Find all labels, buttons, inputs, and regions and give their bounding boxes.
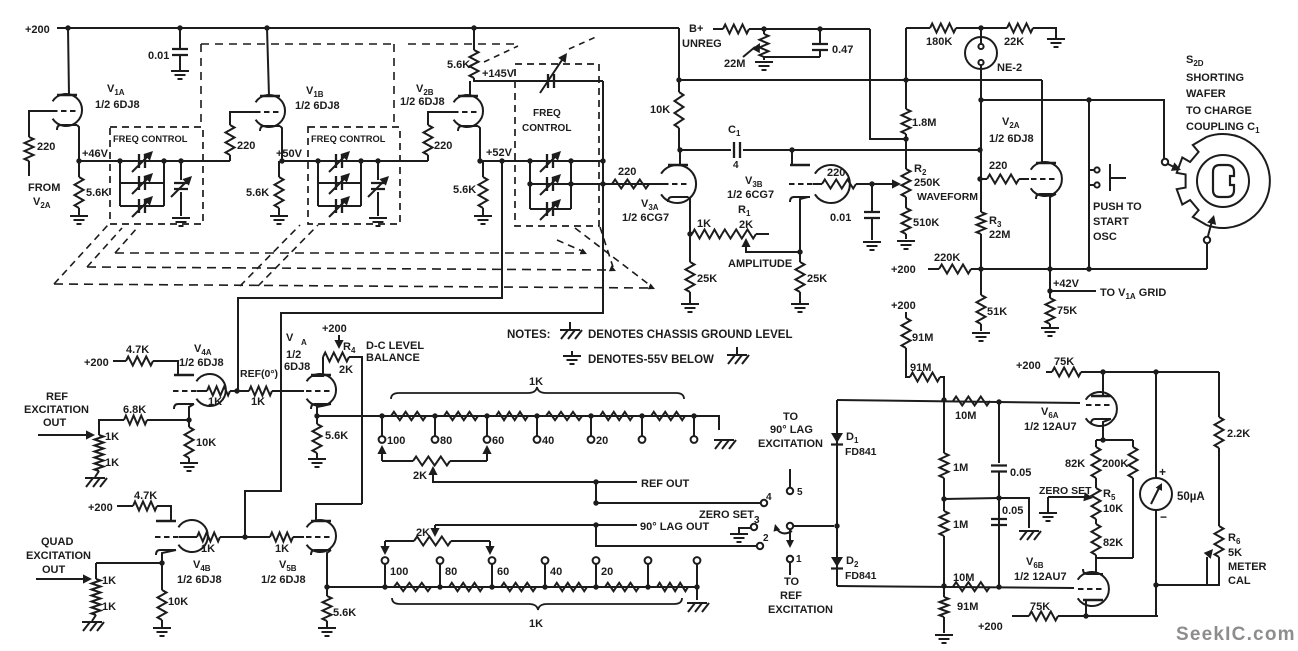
triode V3A 1/2 6CG7 (661, 165, 696, 203)
svg-text:+42V: +42V (1053, 278, 1080, 290)
svg-text:100: 100 (387, 435, 405, 447)
svg-text:FREQ CONTROL: FREQ CONTROL (113, 134, 188, 144)
ground -55V (25K V3B) (791, 304, 809, 312)
svg-text:51K: 51K (987, 306, 1007, 318)
cathode V5B (311, 550, 331, 555)
brace 1K (upper ladder) (391, 387, 684, 399)
resistor 1K (VA grid) (230, 390, 249, 392)
junction top bus / V1B plate (264, 25, 269, 30)
symbol chassis ground (notes 2) (727, 355, 749, 364)
cathode V3B (790, 197, 810, 202)
junction tap (437, 584, 442, 589)
svg-text:22M: 22M (989, 229, 1010, 241)
svg-text:PUSH TO: PUSH TO (1093, 201, 1142, 213)
svg-text:22M: 22M (724, 58, 745, 70)
junction tap (379, 413, 384, 418)
cathode V4A (174, 404, 194, 409)
dashed gang line L1 (115, 252, 585, 254)
svg-text:METER: METER (1228, 561, 1267, 573)
terminal 1 TO REF EXCITATION (787, 556, 793, 562)
svg-text:0.01: 0.01 (148, 50, 169, 62)
wire push-switch riser (1088, 100, 1090, 269)
wire V3A cathode down (688, 197, 690, 234)
svg-text:50µA: 50µA (1177, 491, 1205, 503)
svg-text:CAL: CAL (1228, 575, 1251, 587)
svg-text:91M: 91M (910, 362, 931, 374)
wire 220 stub down (28, 161, 30, 176)
ground -55V (91M) (935, 635, 953, 643)
ground -55V (trimmer 1) (172, 218, 190, 226)
svg-text:75K: 75K (1054, 356, 1074, 368)
variable capacitor C3b (547, 177, 553, 191)
svg-text:10K: 10K (168, 596, 188, 608)
arrowhead L1 (580, 248, 587, 254)
wire lower ladder bus (327, 586, 697, 588)
arrowhead L3 (648, 283, 655, 289)
resistor 4.7K (V4A plate) (113, 360, 126, 362)
plate V5B (311, 520, 331, 522)
wire tap stub (647, 564, 649, 587)
svg-text:0.47: 0.47 (832, 44, 853, 56)
plate V6B (1083, 599, 1103, 601)
terminal tap circle (691, 436, 698, 443)
wire plate line V3A-C1-V3B-R2 (679, 149, 731, 151)
junction tap (691, 413, 696, 418)
grid V4A (173, 390, 197, 392)
svg-text:TO: TO (784, 576, 800, 588)
plate V2A (1036, 162, 1056, 164)
svg-text:WAFER: WAFER (1186, 88, 1226, 100)
wire 22K to ground (1033, 28, 1056, 38)
variable capacitor C3a (547, 154, 553, 168)
wire tap stub (693, 416, 695, 436)
plate V1A (57, 94, 77, 96)
gear teeth S2D (1177, 137, 1207, 225)
svg-text:4: 4 (733, 160, 739, 171)
wire QUAD EXCITATION OUT arrow (36, 578, 85, 580)
svg-text:100: 100 (390, 566, 408, 578)
svg-text:2: 2 (763, 533, 769, 544)
svg-text:5.6K: 5.6K (325, 430, 348, 442)
grid V6A (1086, 404, 1110, 406)
svg-text:4.7K: 4.7K (126, 344, 149, 356)
svg-text:+200: +200 (322, 323, 347, 335)
grid V1A (52, 110, 76, 112)
wire wiper to diode string (794, 525, 834, 527)
dashed gang enclosure stage 2 (201, 43, 394, 45)
junction top bus / 0.01 cap (177, 25, 182, 30)
wire line B (tank to V4B grid riser) (245, 81, 603, 536)
wire tap stub (595, 564, 597, 587)
wire tap stub (696, 564, 698, 587)
wire V5B plate feed (316, 504, 362, 521)
capacitor 0.05 (upper) (998, 402, 1000, 463)
ground -55V (22K) (1047, 39, 1065, 47)
ground -55V (22M) (755, 62, 773, 70)
junction +52V/+145V riser (600, 158, 605, 163)
svg-text:DENOTES-55V BELOW: DENOTES-55V BELOW (588, 354, 714, 366)
wire +50V tank node (282, 160, 428, 162)
cathode V6B (1083, 569, 1103, 574)
svg-text:60: 60 (497, 566, 509, 578)
svg-text:1K: 1K (105, 457, 119, 469)
cathode V1A (57, 125, 77, 130)
wire V1A grid to 220 (29, 111, 52, 137)
resistor 220 (V1B grid) (226, 125, 235, 155)
grid V2B (453, 111, 477, 113)
svg-text:220: 220 (989, 160, 1007, 172)
junction V4B grid / line B (242, 534, 247, 539)
svg-text:REF OUT: REF OUT (641, 478, 690, 490)
wire 22M wiper (743, 47, 755, 57)
resistor 510K (905, 197, 907, 208)
svg-text:4: 4 (766, 492, 772, 503)
wire zero-set wiper (1048, 496, 1088, 498)
wire 200K down (1132, 478, 1134, 558)
junction cathode/osc line (1047, 266, 1052, 271)
triode V2B 1/2 6DJ8 (454, 95, 483, 127)
junction 0.01/R2 wiper (869, 181, 874, 186)
svg-text:0.05: 0.05 (1010, 467, 1031, 479)
resistor 2.2K (1218, 372, 1220, 417)
resistor 220 (V2A grid) (987, 175, 1019, 184)
svg-text:WAVEFORM: WAVEFORM (917, 191, 978, 203)
resistor ladder-upper 2 (444, 412, 478, 420)
resistor ladder-lower 6 (657, 583, 688, 591)
svg-text:B+: B+ (689, 23, 703, 35)
svg-text:TO CHARGE: TO CHARGE (1186, 105, 1252, 117)
dashed gang enclosure stage 3 (408, 43, 516, 45)
svg-text:SHORTING: SHORTING (1186, 72, 1244, 84)
resistor 5.6K (V2B cathode) (479, 177, 488, 208)
junction tap (534, 413, 539, 418)
svg-text:180K: 180K (926, 36, 952, 48)
resistor 25K (V3B) (799, 252, 801, 262)
svg-text:1/2 6DJ8: 1/2 6DJ8 (295, 100, 340, 112)
cathode V2A (1036, 194, 1056, 199)
svg-text:A: A (301, 338, 307, 347)
brace 1K (lower ladder) (392, 598, 682, 610)
wire 0.47 corner to 1.8M jog (870, 29, 906, 139)
svg-text:1K: 1K (208, 396, 222, 408)
svg-text:ZERO SET: ZERO SET (1039, 485, 1092, 497)
symbol -55V ground (notes) (571, 351, 573, 356)
terminal tap circle (437, 557, 444, 564)
svg-text:NE-2: NE-2 (997, 62, 1022, 74)
svg-text:EXCITATION: EXCITATION (26, 550, 91, 562)
inner circle S2D (1197, 155, 1249, 207)
wire V5B cathode to lower ladder (327, 550, 331, 587)
wire diode rect bottom (837, 586, 1074, 588)
svg-text:1/2 6DJ8: 1/2 6DJ8 (177, 574, 222, 586)
resistor 91M (bottom) (943, 586, 945, 597)
resistor 1K (V4A grid) (197, 390, 207, 392)
dashed box FREQ CONTROL 2 (308, 127, 400, 224)
svg-text:CONTROL: CONTROL (522, 123, 571, 134)
wire tap stub (381, 416, 383, 436)
svg-text:200K: 200K (1102, 458, 1128, 470)
terminal tap circle (645, 557, 652, 564)
svg-text:DENOTES CHASSIS GROUND LEVEL: DENOTES CHASSIS GROUND LEVEL (588, 329, 792, 341)
cathode V4B (156, 550, 176, 555)
arrowhead wiper (774, 524, 781, 532)
resistor 22K (1007, 24, 1033, 33)
wire V2B cathode to +52V node (478, 126, 480, 161)
svg-text:+200: +200 (88, 502, 113, 514)
svg-text:0.01: 0.01 (830, 212, 851, 224)
resistor ladder-upper 5 (600, 412, 633, 420)
svg-text:1/2 6DJ8: 1/2 6DJ8 (95, 99, 140, 111)
capacitor 0.01 (R2 wiper) (871, 184, 873, 211)
svg-text:FD841: FD841 (845, 446, 877, 458)
wire +52V tank node (480, 160, 603, 162)
triode V1B 1/2 6DJ8 (256, 95, 285, 127)
wire S2D bottom contact to osc line (1206, 243, 1208, 269)
dashed gang diagonals middle (240, 225, 300, 286)
junction V4A grid / line A (234, 388, 239, 393)
wire V2A vertical node (x=980) (980, 100, 982, 212)
junction tap (484, 413, 489, 418)
svg-text:1/2: 1/2 (286, 349, 301, 361)
svg-text:20: 20 (596, 435, 608, 447)
wire B+ bus (second bus) (679, 79, 1042, 81)
ground -55V (trimmer 2) (369, 218, 387, 226)
junction V3A plate/10K (677, 147, 682, 152)
resistor 10M (bottom) (953, 582, 990, 591)
wire upper ladder bus (317, 416, 719, 430)
svg-text:1/2 6DJ8: 1/2 6DJ8 (179, 357, 224, 369)
svg-text:220: 220 (237, 140, 255, 152)
wire tap stub (641, 416, 643, 436)
svg-text:510K: 510K (913, 217, 939, 229)
wire V6B plate lead (1085, 600, 1087, 616)
svg-text:0.05: 0.05 (1002, 505, 1023, 517)
resistor ladder-lower 5 (605, 583, 639, 591)
arrowhead 2K wiper (428, 466, 437, 475)
svg-text:+52V: +52V (486, 147, 513, 159)
divider 1K/1K (QUAD out) (92, 579, 101, 597)
svg-text:EXCITATION: EXCITATION (768, 604, 833, 616)
potentiometer 2K (upper ladder trim) (377, 445, 386, 454)
wire bus-B to V2A plate (1041, 80, 1043, 163)
wire diode rect top (837, 400, 1080, 403)
ground -55V (51K) (972, 333, 990, 341)
junction bus-B start (676, 77, 681, 82)
svg-text:OUT: OUT (43, 417, 67, 429)
resistor 220 (V2B grid) (424, 125, 433, 155)
resistor 25K (V3A) (689, 234, 691, 262)
svg-text:220: 220 (434, 140, 452, 152)
resistor ladder-lower 1 (394, 583, 431, 591)
svg-text:1/2 6DJ8: 1/2 6DJ8 (400, 96, 445, 108)
contact S2D bottom (1204, 237, 1210, 243)
variable capacitor bank 1 (119, 161, 121, 206)
resistor ladder-upper 1 (391, 412, 426, 420)
ground -55V (5.6K V5B) (318, 628, 336, 636)
cathode V6A (1091, 419, 1111, 424)
junction tap (382, 584, 387, 589)
wire tap stub (486, 416, 488, 436)
svg-text:+50V: +50V (276, 148, 303, 160)
triode V5B 1/2 6DJ8 (307, 520, 336, 552)
resistor 82K (upper) (1095, 440, 1097, 447)
potentiometer 22M (B+ adjust) (723, 25, 749, 34)
grid V3A (663, 183, 687, 185)
svg-text:EXCITATION: EXCITATION (758, 438, 823, 450)
svg-text:1/2 12AU7: 1/2 12AU7 (1014, 571, 1067, 583)
svg-text:1: 1 (796, 554, 802, 565)
variable capacitor C3 top (+145V) (548, 74, 554, 88)
svg-text:5.6K: 5.6K (86, 187, 109, 199)
chassis ground (0.05) (1019, 531, 1041, 540)
dashed box FREQ CONTROL 3 (515, 64, 599, 226)
triode V6A 1/2 12AU7 (1086, 392, 1117, 426)
ground -55V (5.6K V1B) (270, 216, 288, 224)
svg-text:FROM: FROM (28, 182, 60, 194)
arrowhead 2K wiper (430, 528, 439, 537)
chassis ground (REF out) (85, 478, 107, 487)
wire tap stub (384, 564, 386, 587)
svg-text:1K: 1K (697, 218, 711, 230)
svg-text:D-C LEVEL: D-C LEVEL (366, 340, 424, 352)
svg-text:10K: 10K (650, 104, 670, 116)
potentiometer R6 5K METER CAL (1215, 526, 1224, 557)
grid V5B (306, 536, 330, 538)
svg-text:1K: 1K (529, 376, 543, 388)
triode V4B 1/2 6DJ8 (178, 520, 207, 552)
svg-text:EXCITATION: EXCITATION (24, 404, 89, 416)
dashed gang line L2 (87, 267, 612, 270)
wire V4A cathode node (189, 404, 194, 420)
svg-text:6.8K: 6.8K (123, 404, 146, 416)
svg-text:TO: TO (783, 411, 799, 423)
plate V4B (156, 520, 176, 522)
svg-text:250K: 250K (914, 177, 940, 189)
wire +145V (474, 78, 603, 81)
resistor 1K (V5B grid) (220, 536, 270, 538)
svg-text:+200: +200 (978, 621, 1003, 633)
wire V2B grid to 220 (428, 112, 453, 125)
svg-text:90° LAG: 90° LAG (770, 424, 813, 436)
resistor 10K (V3A plate) (678, 80, 680, 92)
grid V3B (789, 183, 813, 185)
resistor 10K (V4A cathode) (188, 420, 190, 427)
svg-text:10M: 10M (955, 410, 976, 422)
svg-text:10K: 10K (196, 437, 216, 449)
junction V6B plate (1083, 613, 1088, 618)
resistor ladder-upper 6 (651, 412, 685, 420)
svg-text:4.7K: 4.7K (134, 490, 157, 502)
svg-text:ZERO SET: ZERO SET (699, 509, 754, 521)
svg-text:75K: 75K (1030, 601, 1050, 613)
wire V3B cathode down (800, 197, 808, 252)
triode V4A 1/2 6DJ8 (196, 374, 225, 406)
svg-text:FD841: FD841 (845, 570, 877, 582)
junction tap (588, 413, 593, 418)
svg-text:+200: +200 (84, 357, 109, 369)
resistor 5.6K (V2B plate) (473, 28, 475, 50)
svg-text:1/2 6CG7: 1/2 6CG7 (727, 189, 774, 201)
svg-text:2K: 2K (339, 364, 353, 376)
variable capacitor C3c (547, 202, 553, 216)
svg-text:+200: +200 (891, 300, 916, 312)
wire V6B cathode node (1095, 555, 1097, 573)
svg-text:25K: 25K (697, 273, 717, 285)
wire REF EXCITATION OUT arrow (38, 434, 88, 436)
wire V1A plate lead (68, 28, 69, 95)
trimmer capacitor 1 (180, 161, 182, 180)
triode V1A 1/2 6DJ8 (53, 94, 82, 126)
terminal tap circle (639, 436, 646, 443)
svg-text:QUAD: QUAD (41, 536, 73, 548)
wire V3B plate lead (791, 150, 793, 165)
divider 1K/1K (REF out) (99, 420, 102, 435)
wire tap stub (491, 564, 493, 587)
svg-text:2K: 2K (739, 219, 753, 231)
junction bus-B / 1.8M (903, 77, 908, 82)
wire tap stub (439, 564, 441, 587)
svg-text:10M: 10M (953, 572, 974, 584)
svg-text:91M: 91M (957, 601, 978, 613)
cathode V2B (458, 126, 478, 131)
svg-text:22K: 22K (1004, 36, 1024, 48)
junction plate-line end (977, 147, 982, 152)
grid V6B (1078, 588, 1102, 590)
svg-text:1K: 1K (275, 543, 289, 555)
wire 2K wiper to LAG line (434, 525, 436, 535)
wire V1B plate lead (267, 28, 269, 96)
svg-text:V: V (286, 332, 294, 344)
triode VA 1/2 6DJ8 (307, 374, 336, 406)
wire tap stub (536, 416, 538, 436)
svg-text:REF: REF (780, 590, 802, 602)
junction tank mid row (600, 181, 605, 186)
svg-text:91M: 91M (912, 332, 933, 344)
svg-text:5.6K: 5.6K (246, 187, 269, 199)
ground -55V (5.6K V1A) (70, 216, 88, 224)
wire REF OUT (433, 468, 637, 482)
svg-text:1/2 12AU7: 1/2 12AU7 (1024, 421, 1077, 433)
resistor 75K (V6B plate) (1012, 615, 1029, 617)
junction cap column top (996, 399, 1001, 404)
junction cap mid (996, 495, 1001, 500)
wire start-osc line (981, 268, 1207, 270)
junction V6A plate (1100, 369, 1105, 374)
dashed gang diagonal to box3 (484, 46, 518, 62)
capacitor 0.01 (top-left bypass) (179, 28, 181, 48)
svg-text:5.6K: 5.6K (453, 184, 476, 196)
svg-text:2K: 2K (413, 470, 427, 482)
wire R6 wiper (1206, 557, 1208, 585)
push button switch PUSH TO START OSC (1089, 169, 1094, 171)
svg-text:20: 20 (601, 566, 613, 578)
junction V3A cathode node (687, 231, 692, 236)
wire to contact 4 (596, 482, 760, 503)
grid V1B (255, 111, 279, 113)
svg-text:1K: 1K (201, 543, 215, 555)
wire top bus drop to B+ bus (678, 28, 680, 80)
capacitor 0.05 (lower) (991, 519, 1007, 525)
svg-text:25K: 25K (807, 273, 827, 285)
svg-text:1K: 1K (102, 575, 116, 587)
junction tap (542, 584, 547, 589)
junction 1.8M bottom (903, 136, 908, 141)
resistor ladder-lower 3 (501, 583, 536, 591)
wire V6A cathode node (1103, 419, 1111, 440)
junction push switch riser (1086, 97, 1091, 102)
svg-text:UNREG: UNREG (682, 38, 722, 50)
resistor ladder-lower 4 (554, 583, 587, 591)
